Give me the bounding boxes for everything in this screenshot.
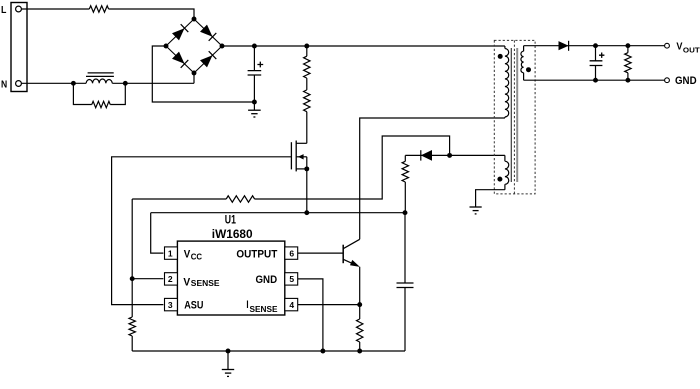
wire L to fuse resistor — [22, 8, 90, 10]
pin 4 box — [285, 298, 298, 310]
svg-text:GND: GND — [675, 75, 697, 87]
ground (primary, below C1) — [253, 102, 255, 110]
wire pin4 to sense node — [298, 304, 360, 306]
node gnd-res — [625, 78, 630, 83]
node Q2 source — [304, 166, 309, 171]
bridge diode D4 (bottom-right) — [200, 55, 213, 67]
node gnd-cap — [593, 78, 598, 83]
transistor Q2 (startup MOSFET) — [290, 142, 292, 169]
resistor R4 (startup lower) — [306, 78, 308, 90]
diode D6 (output rectifier) — [559, 41, 569, 50]
bridge diode D1 (left-top) — [172, 28, 185, 40]
wire N to bridge bottom — [193, 73, 195, 83]
transistor Q1 (NPN switch) — [342, 245, 344, 264]
diode D5 (VCC rectifier) — [421, 150, 432, 161]
svg-text:OUT: OUT — [683, 46, 700, 55]
svg-text:1: 1 — [168, 248, 173, 258]
bridge BR1 outline — [166, 19, 222, 73]
svg-text:V: V — [183, 276, 190, 288]
node primary dot — [498, 54, 503, 59]
inductor L1 (filter choke) — [86, 79, 112, 83]
fusible resistor RF1 — [89, 6, 108, 12]
svg-text:2: 2 — [168, 274, 173, 284]
wire gate to ASU — [112, 157, 292, 305]
node bridge left — [164, 44, 169, 49]
wire VSENSE to pin2 — [132, 199, 163, 279]
node rail-gnd — [226, 349, 231, 354]
wire pin6 to Q1 base — [298, 252, 344, 254]
svg-text:SENSE: SENSE — [191, 278, 220, 288]
wire N to node — [22, 82, 87, 84]
resistor R8 (current sense) — [359, 305, 361, 319]
svg-text:5: 5 — [289, 274, 294, 284]
wire VSENSE line left — [132, 198, 226, 200]
connector J1 (AC input) — [11, 3, 27, 92]
pin 6 box — [285, 247, 298, 259]
winding secondary — [521, 46, 524, 80]
resistor R6 (VSENSE lower) — [131, 279, 133, 317]
resistor R3 (startup upper) — [306, 46, 308, 56]
svg-text:3: 3 — [168, 300, 173, 310]
wire DC+ rail — [222, 45, 505, 47]
transformer isolation line — [513, 40, 515, 194]
svg-text:OUTPUT: OUTPUT — [236, 249, 277, 261]
pin 5 box — [285, 273, 298, 285]
resistor R9 (output load) — [627, 46, 629, 53]
node bridge top — [192, 17, 197, 22]
svg-text:U1: U1 — [225, 215, 237, 227]
resistor R5 (VSENSE feed) — [226, 196, 254, 202]
node B (choke right) — [123, 81, 128, 86]
node C1 bottom — [252, 100, 257, 105]
bridge diode D3 (left-bottom) — [172, 52, 185, 64]
node bridge right — [220, 44, 225, 49]
transformer T1 outline (dashed) — [494, 40, 535, 194]
wire choke right — [112, 82, 194, 84]
node VCC-Q2source — [304, 210, 309, 215]
svg-text:4: 4 — [289, 300, 294, 310]
wire secondary top — [524, 45, 665, 47]
ground (aux) — [470, 206, 482, 208]
pin 2 box — [165, 273, 178, 285]
op-amp U1 body (iW1680 controller) — [177, 241, 284, 315]
wire primary to Q1 collector — [360, 118, 505, 239]
node out-cap — [593, 43, 598, 48]
wire secondary bottom — [524, 79, 665, 81]
ground (signal, below rail) — [227, 351, 229, 370]
winding aux — [505, 155, 509, 189]
wire pin5 to ground — [298, 279, 323, 351]
bridge diode D2 (top-right) — [200, 25, 213, 37]
wire bridge left to primary ground — [152, 46, 254, 102]
terminal GND — [665, 78, 670, 83]
wire aux line — [405, 154, 505, 156]
node rail-sense — [357, 349, 362, 354]
capacitor C2 (VCC) — [404, 213, 406, 283]
resistor R2 (parallel damping) — [73, 83, 91, 104]
pin 3 box — [165, 298, 178, 310]
svg-text:iW1680: iW1680 — [212, 229, 253, 241]
wire VSENSE line right — [255, 136, 450, 199]
node rail-cap — [252, 44, 257, 49]
svg-text:CC: CC — [191, 253, 203, 262]
svg-text:V: V — [676, 40, 682, 52]
svg-text:6: 6 — [289, 248, 294, 258]
svg-text:SENSE: SENSE — [250, 304, 278, 314]
node ISENSE — [357, 302, 362, 307]
svg-text:I: I — [246, 299, 248, 311]
wire fuse to bridge top — [109, 9, 194, 19]
node pin2 — [130, 276, 135, 281]
node out-res — [625, 43, 630, 48]
node bridge bottom — [192, 71, 197, 76]
pin 1 box — [165, 247, 178, 259]
wire VCC line — [151, 212, 405, 214]
node rail-pin5 — [320, 349, 325, 354]
node secondary dot — [526, 67, 531, 72]
wire VCC to pin1 — [151, 213, 164, 253]
wire Q1 emitter down — [359, 267, 361, 305]
svg-text:N: N — [1, 79, 7, 90]
capacitor C3 (output, polarized) — [595, 46, 597, 80]
transformer core — [510, 48, 512, 182]
terminal VOUT — [665, 43, 670, 48]
node aux dot — [497, 177, 502, 182]
wire ground rail — [132, 350, 405, 352]
node aux tap — [447, 153, 452, 158]
winding primary — [505, 46, 509, 118]
node A (choke left) — [71, 81, 76, 86]
svg-text:GND: GND — [256, 274, 278, 286]
resistor R7 (VCC series) — [404, 155, 406, 161]
capacitor C1 (bulk, polarized) — [253, 46, 255, 102]
svg-text:ASU: ASU — [184, 299, 203, 311]
svg-text:L: L — [1, 5, 6, 16]
node VCC-RC — [403, 210, 408, 215]
node rail-res — [304, 44, 309, 49]
wire aux return to ground — [476, 190, 505, 207]
